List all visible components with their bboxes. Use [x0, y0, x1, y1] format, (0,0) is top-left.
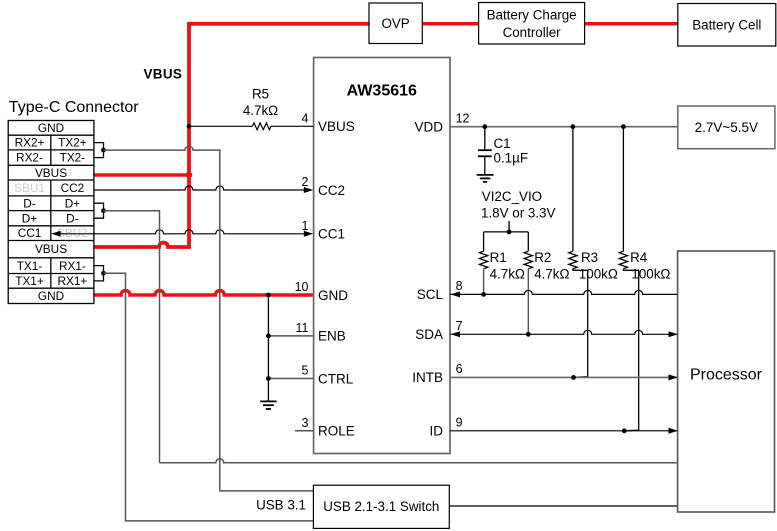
wire SCL pin 8 — [451, 290, 678, 294]
svg-text:D-: D- — [23, 196, 36, 210]
svg-text:SCL: SCL — [417, 287, 444, 302]
box Battery Charge Controller — [479, 3, 585, 45]
wire VDD pin 12 — [450, 126, 678, 128]
svg-text:D+: D+ — [22, 211, 38, 225]
svg-text:C1: C1 — [494, 136, 511, 151]
wire VBUS red trunk and top feed — [94, 24, 678, 247]
svg-text:0.1µF: 0.1µF — [494, 151, 529, 166]
wire ground branch — [267, 295, 269, 401]
wire D pair to processor — [104, 211, 160, 463]
svg-text:AW35616: AW35616 — [347, 83, 417, 100]
junction trunk-pin4 — [187, 124, 192, 129]
wire CC1 — [60, 230, 304, 234]
svg-text:VBUS: VBUS — [144, 67, 183, 82]
wire CTRL pin 5 — [268, 378, 313, 380]
wire GND red from connector to pin 10 — [94, 291, 314, 296]
connector table Type-C — [8, 121, 94, 304]
pin labels left — [318, 119, 355, 439]
svg-text:4.7kΩ: 4.7kΩ — [490, 266, 525, 281]
svg-text:12: 12 — [456, 111, 470, 125]
svg-text:9: 9 — [456, 416, 463, 430]
svg-text:TX1-: TX1- — [17, 259, 43, 273]
svg-text:RX2+: RX2+ — [15, 136, 45, 150]
svg-text:RX1+: RX1+ — [57, 274, 87, 288]
wire pair bracket D+/D- — [94, 203, 104, 218]
wire TX1 pair to USB switch — [104, 273, 314, 521]
svg-text:CC2: CC2 — [318, 183, 345, 198]
svg-text:6: 6 — [456, 362, 463, 376]
wire INTB pin 6 — [450, 376, 678, 378]
resistor R3 — [572, 127, 574, 252]
junction R4 top — [621, 124, 626, 129]
svg-text:7: 7 — [456, 319, 463, 333]
svg-text:R2: R2 — [534, 250, 551, 265]
svg-text:R4: R4 — [630, 250, 648, 265]
box OVP — [369, 3, 422, 44]
svg-text:TX1+: TX1+ — [15, 274, 44, 288]
svg-text:4.7kΩ: 4.7kΩ — [534, 266, 569, 281]
wire ROLE stub pin 3 — [295, 430, 314, 432]
junction ENB-branch — [266, 334, 271, 339]
svg-text:ROLE: ROLE — [318, 424, 355, 439]
wire VBUS row4 red branch — [94, 173, 189, 177]
svg-text:Controller: Controller — [503, 25, 562, 40]
svg-text:ID: ID — [430, 423, 444, 438]
svg-text:SBU1: SBU1 — [14, 181, 45, 195]
svg-text:R3: R3 — [581, 250, 598, 265]
svg-text:VI2C_VIO: VI2C_VIO — [482, 189, 542, 204]
resistor R1 — [483, 232, 485, 251]
svg-text:Processor: Processor — [690, 366, 763, 383]
junction R3 top — [571, 124, 576, 129]
svg-text:CC1: CC1 — [318, 227, 345, 242]
box Processor — [678, 251, 775, 512]
box USB 2.1-3.1 Switch — [313, 485, 449, 528]
svg-text:1.8V or 3.3V: 1.8V or 3.3V — [481, 205, 556, 220]
svg-text:GND: GND — [38, 121, 64, 135]
svg-text:USB 2.1-3.1 Switch: USB 2.1-3.1 Switch — [323, 499, 439, 514]
resistor R2 — [527, 232, 529, 251]
pin numbers — [295, 111, 470, 430]
svg-text:VBUS: VBUS — [318, 119, 355, 134]
wire ID pin 9 — [450, 430, 678, 432]
svg-text:GND: GND — [38, 289, 64, 303]
svg-text:RX1-: RX1- — [59, 259, 86, 273]
box 2.7V~5.5V supply — [678, 106, 775, 149]
wire USB switch to processor — [449, 505, 677, 507]
svg-text:4.7kΩ: 4.7kΩ — [243, 103, 278, 118]
svg-text:2: 2 — [302, 175, 309, 189]
capacitor C1 — [478, 127, 492, 175]
svg-text:VDD: VDD — [414, 119, 443, 134]
svg-text:100kΩ: 100kΩ — [579, 266, 618, 281]
wire pair bracket RX2 — [94, 143, 104, 158]
junction C1 top — [482, 124, 487, 129]
svg-text:CC1: CC1 — [18, 226, 42, 240]
svg-text:10: 10 — [295, 280, 309, 294]
pin labels right — [412, 119, 443, 438]
svg-text:GND: GND — [318, 288, 348, 303]
junction CTRL-branch — [266, 376, 271, 381]
svg-text:VBUS: VBUS — [35, 166, 67, 180]
svg-text:3: 3 — [302, 416, 309, 430]
svg-text:R1: R1 — [490, 250, 507, 265]
wire RX2 pair to USB switch — [104, 146, 314, 491]
svg-text:TX2+: TX2+ — [58, 136, 87, 150]
wire CC2 — [94, 186, 305, 190]
svg-text:100kΩ: 100kΩ — [631, 266, 670, 281]
svg-text:INTB: INTB — [412, 370, 443, 385]
svg-text:1: 1 — [302, 219, 309, 233]
svg-text:2.7V~5.5V: 2.7V~5.5V — [695, 120, 758, 135]
wire pair bracket TX1 — [94, 266, 104, 281]
svg-text:D-: D- — [66, 211, 79, 225]
svg-text:RX2-: RX2- — [16, 151, 43, 165]
box Battery Cell — [678, 4, 776, 47]
junction GND-branch — [266, 293, 271, 298]
svg-text:SDA: SDA — [415, 327, 443, 342]
svg-text:Battery Charge: Battery Charge — [487, 8, 577, 23]
svg-text:TX2-: TX2- — [60, 151, 86, 165]
svg-text:ENB: ENB — [318, 329, 346, 344]
svg-text:4: 4 — [302, 111, 309, 125]
svg-text:Type-C Connector: Type-C Connector — [9, 99, 140, 116]
svg-text:CTRL: CTRL — [318, 371, 354, 386]
svg-text:OVP: OVP — [381, 16, 409, 31]
svg-text:8: 8 — [456, 279, 463, 293]
svg-text:VBUS: VBUS — [35, 242, 67, 256]
wire ENB pin 11 — [268, 335, 313, 337]
svg-text:Battery Cell: Battery Cell — [692, 18, 761, 33]
wire pin4 VBUS to trunk — [189, 125, 252, 127]
ground symbol under CTRL — [260, 401, 276, 409]
svg-text:5: 5 — [302, 364, 309, 378]
ground symbol under C1 — [477, 175, 494, 182]
junction red VBUS node — [186, 172, 193, 179]
svg-text:11: 11 — [296, 321, 309, 335]
svg-text:R5: R5 — [252, 87, 269, 102]
resistor R5 — [252, 123, 271, 130]
svg-text:CC2: CC2 — [61, 181, 85, 195]
svg-text:USB 3.1: USB 3.1 — [256, 498, 306, 513]
svg-text:D+: D+ — [65, 196, 81, 210]
wire SDA pin 7 — [451, 330, 678, 334]
resistor R4 — [622, 127, 624, 252]
IC U1 AW35616 chip body — [314, 58, 450, 454]
